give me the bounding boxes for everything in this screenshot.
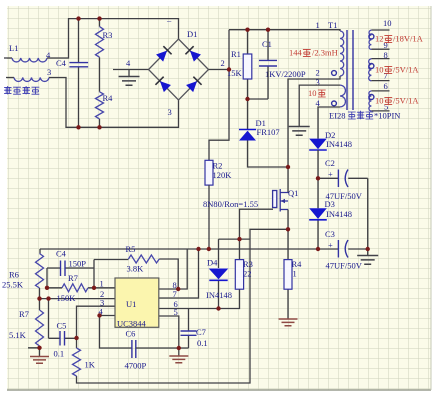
svg-text:R4: R4 [292,259,303,269]
svg-text:5: 5 [384,102,388,112]
ground at C2 C3 [357,249,378,264]
svg-text:C1: C1 [262,39,272,49]
transformer T1 aux winding [340,85,345,107]
wire L1 pin4 to rail [47,19,179,58]
svg-text:C3: C3 [325,229,335,239]
resistor R6 [36,249,44,299]
wire node 2 vertical and to R2 [209,30,229,161]
wire sense node left and down to 1K [77,229,289,383]
svg-text:3: 3 [168,107,172,117]
svg-text:7: 7 [384,71,388,81]
svg-text:120K: 120K [213,170,233,180]
svg-text:25.5K: 25.5K [2,280,24,290]
transformer secondary winding 3 [369,91,390,111]
diode D1 FR107 [239,99,288,167]
resistor R4 sense [284,229,292,318]
svg-text:T1: T1 [328,20,337,30]
svg-text:5.1K: 5.1K [9,330,27,340]
ground below R4 [279,319,298,326]
svg-text:R6: R6 [9,270,19,280]
transformer T1 pin 4 circle [332,101,337,106]
svg-text:5: 5 [174,307,178,317]
svg-text:1: 1 [293,269,297,279]
wire pin 3 line [77,306,116,338]
capacitor C6 [132,340,189,358]
svg-text:12: 12 [375,34,384,44]
MOSFET Q1 [273,189,288,212]
svg-text:8: 8 [384,50,388,60]
svg-text:R5: R5 [126,244,136,254]
transformer secondary winding 2 [369,59,390,81]
svg-text:10: 10 [375,65,384,75]
svg-text:7: 7 [173,289,177,299]
capacitor C7 [181,309,197,349]
resistor R5 [94,255,178,289]
svg-text:U1: U1 [126,299,136,309]
diode D3 [309,178,327,249]
bridge rectifier D1 diamond [149,39,209,100]
capacitor C4 input [69,19,88,128]
svg-text:IN4148: IN4148 [326,139,352,149]
resistor R1 [243,30,252,99]
bridge diode top-right [185,46,201,62]
inductor L1 winding B [6,78,49,82]
resistor R3 gate [235,260,243,290]
capacitor C4 comp [47,260,94,288]
secondary winding 1 phase circle [369,34,374,39]
svg-text:C7: C7 [196,327,206,337]
resistor 1K [73,338,81,376]
svg-text:IN4148: IN4148 [326,209,352,219]
svg-text:/5V/1A: /5V/1A [393,65,419,75]
resistor R7 lower [28,299,44,348]
label EI28 transformer 10PIN [329,111,400,121]
svg-text:R4: R4 [103,93,114,103]
svg-text:6: 6 [384,81,388,91]
secondary winding 2 phase circle [369,64,374,69]
transformer secondary winding 1 [369,30,390,49]
svg-text:1: 1 [100,279,104,289]
ground at pin 5 [169,348,188,363]
svg-text:10: 10 [308,88,317,98]
svg-text:/2.3mH: /2.3mH [312,48,338,58]
svg-text:C6: C6 [126,329,136,339]
label winding 10T 5V 1A (red) [375,65,419,75]
svg-text:2: 2 [316,68,320,78]
svg-text:EI28: EI28 [329,111,346,121]
svg-text:C5: C5 [57,321,67,331]
svg-text:FR107: FR107 [257,127,280,137]
wire L1 pin3 down to bottom rail [49,78,179,128]
wire bridge left vertex [113,69,149,71]
svg-text:C4: C4 [56,58,67,68]
label winding 12T 18V 1A (red) [375,34,424,44]
svg-text:R2: R2 [213,161,223,171]
svg-text:IN4148: IN4148 [206,290,232,300]
svg-text:0.1: 0.1 [54,349,65,359]
wire FB line pin 2 [40,298,116,300]
svg-text:C2: C2 [325,158,335,168]
svg-text:3: 3 [47,67,51,77]
svg-text:–: – [166,15,172,25]
ground at bridge input [119,70,140,86]
ground below R7 lower [30,348,49,364]
resistor R7 comp on pin1 line [47,284,115,292]
wire pin 5 to ground [159,316,179,348]
svg-text:R3: R3 [103,30,113,40]
svg-text:2: 2 [221,58,225,68]
svg-text:C4: C4 [56,249,67,259]
svg-text:1K: 1K [85,360,96,370]
svg-text:UC3844: UC3844 [117,319,147,329]
border bottom edge of grid [7,389,431,391]
svg-text:3.8K: 3.8K [127,264,145,274]
wire pin 4 line to C6 [100,316,132,349]
capacitor C3 [318,240,368,258]
wire pin 7 to VCC line [159,249,199,298]
capacitor C1 [248,30,278,99]
diode D4 [209,269,229,309]
top rail right to transformer pin 1 [229,30,340,31]
svg-text:R3: R3 [243,259,253,269]
svg-text:R7: R7 [68,273,78,283]
bridge diode top-left [156,46,172,62]
svg-text:L1: L1 [9,43,18,53]
resistor R3 input [96,19,104,92]
wire bridge right to node 2 [209,69,230,71]
wire pin 6 OUT line [159,289,240,308]
svg-text:D1: D1 [187,29,197,39]
svg-text:8N80/Ron=1.55: 8N80/Ron=1.55 [203,199,258,209]
svg-text:/18V/1A: /18V/1A [393,34,424,44]
wire Q1 source to sense node [287,210,289,230]
inductor L1 winding A [4,58,47,62]
wire gate line [240,209,274,259]
label aux 10 turns (red) [308,88,326,98]
svg-text:D3: D3 [325,199,335,209]
svg-text:10: 10 [375,96,384,106]
transformer T1 pin 2 circle [332,71,337,76]
transformer T1 primary winding [340,31,344,76]
resistor R2 [205,160,213,249]
svg-text:/5V/1A: /5V/1A [393,96,419,106]
svg-text:0.1: 0.1 [197,338,208,348]
svg-text:9: 9 [384,40,388,50]
svg-text:47UF/50V: 47UF/50V [326,261,363,271]
bridge diode bottom-left [155,77,171,93]
label primary 144 turns (red) [289,48,338,58]
resistor R4 input [96,92,104,128]
svg-text:D4: D4 [207,258,218,268]
wire pin 2 to MOSFET drain [288,76,340,193]
transformer T1 core [347,30,353,110]
IC U1 UC3844 [115,278,159,327]
wire pin 4 to D2 [318,107,340,139]
svg-text:150K: 150K [57,293,77,303]
svg-text:144: 144 [289,48,303,58]
VCC line [40,248,318,250]
svg-text:150P: 150P [69,259,87,269]
bridge diode bottom-right [186,77,202,93]
svg-text:Q1: Q1 [288,188,298,198]
svg-text:R7: R7 [19,309,29,319]
svg-text:+: + [328,169,333,179]
wire pin 8 to VCC line [159,249,187,289]
capacitor C5 [49,299,77,346]
svg-text:R1: R1 [231,49,241,59]
ground at T1 pin 3 [289,127,310,136]
svg-text:10: 10 [383,18,392,28]
secondary winding 3 phase circle [369,95,374,100]
svg-text:*10PIN: *10PIN [374,111,400,121]
svg-text:4700P: 4700P [125,361,147,371]
svg-text:22: 22 [243,269,252,279]
diode D2 [309,139,327,179]
svg-text:1KV/2200P: 1KV/2200P [265,69,306,79]
wire gate aux line [219,239,251,268]
label common-mode choke (Chinese) [4,86,39,94]
wire pin 3 to ground [299,85,340,126]
svg-text:1: 1 [316,20,320,30]
label winding 10T 5V 1A lower (red) [375,96,419,106]
capacitor C2 [318,170,368,250]
